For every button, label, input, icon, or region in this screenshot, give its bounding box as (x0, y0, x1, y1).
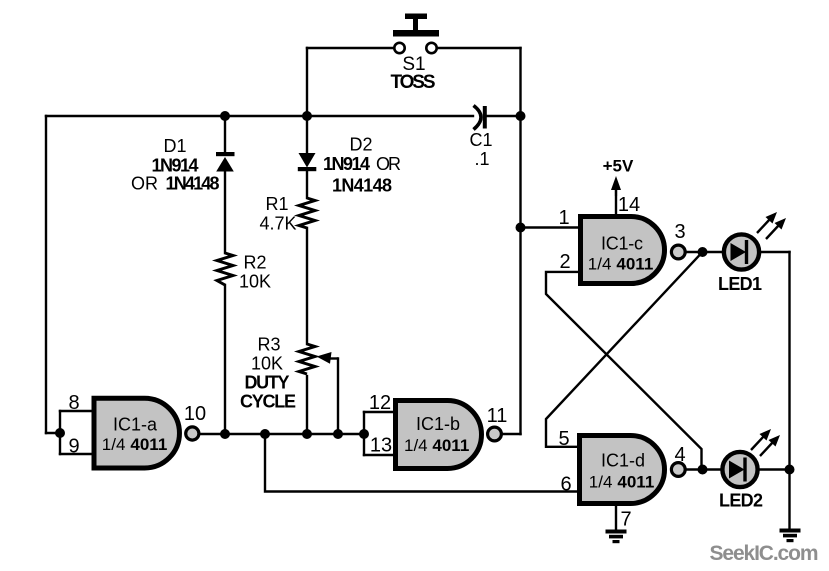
svg-text:.1: .1 (474, 149, 489, 169)
svg-text:4011: 4011 (616, 254, 653, 273)
svg-text:TOSS: TOSS (391, 72, 436, 93)
svg-text:IC1-c: IC1-c (601, 233, 643, 253)
nand gate IC1-c (581, 217, 686, 284)
wire IC1-c output to LED1 (685, 251, 723, 253)
wire through LED1 (725, 251, 758, 253)
node bus D1 chain (220, 429, 230, 439)
svg-text:LED2: LED2 (719, 491, 763, 511)
svg-text:10K: 10K (239, 272, 271, 292)
svg-text:+5V: +5V (603, 156, 634, 175)
wire pin 9 stub (60, 453, 93, 455)
svg-text:6: 6 (560, 474, 571, 496)
wire S1 right vertical down to IC1-b output (519, 48, 521, 434)
wire R1 to R3 (306, 228, 308, 344)
svg-text:LED1: LED1 (718, 274, 762, 294)
svg-text:SeekIC.com: SeekIC.com (710, 542, 819, 565)
node top bus / D2 S1 left (302, 111, 312, 121)
wire pin 2 cross-coupling to pin 4 node (546, 272, 702, 469)
svg-text:CYCLE: CYCLE (240, 392, 296, 412)
resistor R1 (299, 198, 315, 228)
wire IC1-b input bracket (363, 412, 365, 455)
node pin 1 feedback (516, 223, 526, 233)
wire LED2 to right vertical (759, 468, 790, 470)
wire stub to IC1-a input bracket (46, 432, 60, 434)
svg-text:1/4: 1/4 (589, 473, 613, 492)
svg-text:1/4: 1/4 (404, 436, 428, 455)
node pin 4 output (698, 465, 708, 475)
wire D1 to R2 (224, 171, 226, 253)
wire top bus left (46, 115, 473, 117)
LED2 (722, 452, 757, 487)
svg-text:4011: 4011 (130, 435, 167, 454)
wire right vertical LED1 to LED2 to ground (788, 252, 790, 528)
node IC1-a inputs (55, 428, 65, 438)
svg-text:1/4: 1/4 (102, 435, 126, 454)
potentiometer R3 wiper arrow (317, 352, 339, 364)
svg-text:10: 10 (184, 403, 206, 425)
wire left vertical (45, 116, 47, 433)
wire pin 3 node cross-coupling to pin 5 (546, 253, 702, 447)
svg-text:R2: R2 (243, 253, 266, 273)
wire pin 8 stub (60, 410, 93, 412)
svg-text:5: 5 (558, 428, 569, 450)
node bus R3 (302, 429, 312, 439)
diode D2 (298, 153, 317, 171)
svg-text:7: 7 (620, 509, 631, 531)
node pin 3 output (698, 247, 708, 257)
node IC1-b inputs (359, 429, 369, 439)
svg-text:IC1-b: IC1-b (416, 414, 460, 434)
svg-text:IC1-a: IC1-a (113, 415, 158, 435)
svg-text:1/4: 1/4 (588, 254, 612, 273)
svg-text:D1: D1 (163, 136, 186, 156)
svg-text:4.7K: 4.7K (259, 214, 296, 234)
wire D2 chain top (306, 116, 308, 153)
svg-text:2: 2 (559, 251, 570, 273)
svg-text:10K: 10K (251, 354, 283, 374)
wire IC1-a input bracket (59, 411, 61, 454)
svg-text:1N4148: 1N4148 (332, 176, 392, 196)
node top bus / D1 (220, 111, 230, 121)
wire S1 left vertical (306, 48, 308, 116)
svg-text:8: 8 (68, 392, 79, 414)
node C1 / S1 right (516, 111, 526, 121)
wire R3 wiper vertical (337, 359, 339, 435)
LED1 (724, 234, 759, 269)
wire D1 R2 chain top (224, 116, 226, 153)
wire D2 to R1 (306, 171, 308, 198)
svg-text:C1: C1 (469, 130, 492, 150)
svg-text:4: 4 (674, 444, 685, 466)
svg-text:OR: OR (131, 174, 158, 194)
wire IC1-d pin 7 to ground (615, 506, 617, 529)
svg-text:9: 9 (68, 436, 79, 458)
+5V supply arrow (611, 176, 621, 196)
svg-text:R3: R3 (257, 335, 280, 355)
svg-text:4011: 4011 (617, 473, 654, 492)
LED1 emission arrows (757, 212, 786, 239)
pushbutton S1 (393, 14, 439, 54)
node bus wiper (333, 429, 343, 439)
wire IC1-c pin 14 to +5V (615, 190, 617, 214)
wire R3 to bottom bus (306, 376, 308, 434)
svg-text:3: 3 (674, 221, 685, 243)
svg-text:1N914: 1N914 (152, 156, 199, 176)
svg-text:14: 14 (618, 194, 640, 216)
LED2 emission arrows (751, 429, 780, 456)
node bus pin 6 branch (260, 429, 270, 439)
node LED2 right (785, 465, 795, 475)
svg-text:DUTY: DUTY (245, 373, 290, 393)
svg-text:1: 1 (558, 207, 569, 229)
wire bottom bus (199, 433, 364, 435)
svg-text:1N914: 1N914 (323, 154, 370, 174)
svg-text:12: 12 (369, 392, 391, 414)
wire top bus right of C1 (487, 115, 521, 117)
nand gate IC1-a (94, 398, 199, 468)
wire IC1-d output to LED2 (685, 468, 723, 470)
wire S1 right lead (436, 47, 521, 49)
wire S1 left lead (307, 47, 394, 49)
wire IC1-b output to feedback line (502, 433, 521, 435)
svg-text:R1: R1 (265, 194, 288, 214)
wire R2 to bottom bus (224, 285, 226, 434)
nand gate IC1-d (580, 436, 686, 504)
diode D1 (216, 152, 235, 172)
wire node to IC1-d pin 6 (265, 434, 579, 492)
svg-text:13: 13 (370, 435, 392, 457)
svg-text:D2: D2 (349, 135, 372, 155)
svg-text:1N4148: 1N4148 (166, 174, 220, 194)
wire pin 12 stub (364, 411, 395, 413)
nand gate IC1-b (396, 401, 502, 469)
capacitor C1 (474, 106, 485, 130)
wire pin 1 (521, 226, 581, 228)
svg-text:11: 11 (487, 405, 508, 427)
svg-text:4011: 4011 (432, 436, 469, 455)
potentiometer R3 (299, 344, 315, 374)
wire pin 13 stub (364, 454, 395, 456)
ground IC1-d pin 7 (606, 530, 627, 544)
ground right rail (780, 529, 801, 543)
svg-text:OR: OR (376, 154, 401, 174)
svg-text:IC1-d: IC1-d (601, 451, 645, 471)
wire LED1 to right vertical (759, 251, 790, 253)
wire through LED2 (725, 468, 758, 470)
resistor R2 (217, 253, 233, 285)
